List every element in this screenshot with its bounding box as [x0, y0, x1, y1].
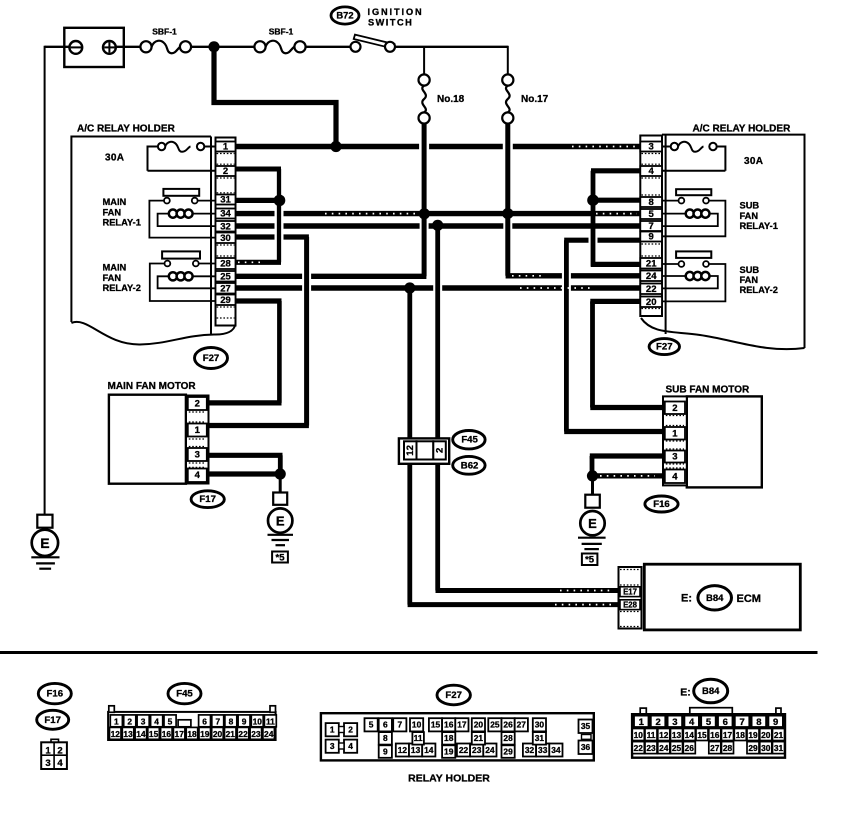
svg-text:15: 15 [431, 720, 441, 730]
svg-text:2: 2 [348, 725, 353, 735]
svg-text:A/C RELAY HOLDER: A/C RELAY HOLDER [77, 124, 176, 135]
svg-text:30: 30 [220, 233, 231, 244]
label E: B84 bottom [680, 679, 727, 703]
sub motor pin 1 [665, 427, 685, 440]
wire switch to fuse branches [395, 46, 508, 48]
svg-text:4: 4 [689, 717, 695, 728]
separator line [0, 651, 818, 654]
svg-text:26: 26 [503, 720, 513, 730]
sub motor pin 2 [665, 402, 685, 415]
svg-text:31: 31 [535, 733, 545, 743]
svg-text:RELAY-2: RELAY-2 [740, 285, 778, 295]
relay MAIN FAN RELAY-2 [103, 251, 216, 301]
svg-text:12: 12 [659, 730, 669, 740]
svg-text:33: 33 [538, 745, 548, 755]
wire pin32 to pin7 line [236, 223, 641, 228]
svg-text:8: 8 [229, 716, 234, 726]
wire right pin9 to sub fan motor pin1 [564, 240, 663, 431]
svg-text:10: 10 [412, 720, 422, 730]
ground E far left [31, 515, 59, 569]
svg-text:MAIN: MAIN [103, 197, 127, 207]
svg-text:1: 1 [672, 428, 678, 439]
ground E sub fan [578, 476, 606, 566]
label F45 oval bottom [168, 683, 201, 703]
svg-text:24: 24 [659, 743, 669, 753]
svg-text:16: 16 [710, 730, 720, 740]
left A/C relay holder [71, 124, 235, 345]
pin E17 [620, 587, 640, 597]
sub fan motor [663, 385, 762, 488]
svg-text:21: 21 [774, 730, 784, 740]
svg-text:9: 9 [383, 746, 388, 756]
svg-text:E: E [40, 535, 49, 551]
svg-text:17: 17 [723, 730, 733, 740]
svg-text:20: 20 [213, 729, 223, 739]
junction dot right pin8 [587, 194, 599, 206]
svg-text:26: 26 [685, 743, 695, 753]
motor pin 4 [188, 469, 207, 483]
wire left pin2 to pin28 vertical [277, 169, 281, 262]
svg-text:29: 29 [220, 295, 231, 306]
wire right pin24 from No.17 riser [506, 273, 641, 278]
svg-text:12: 12 [398, 745, 408, 755]
svg-text:RELAY-1: RELAY-1 [740, 221, 778, 231]
svg-text:E:: E: [680, 687, 691, 699]
svg-text:FAN: FAN [740, 211, 759, 221]
svg-text:15: 15 [697, 730, 707, 740]
fuse SBF-1 (second) [254, 27, 305, 54]
wire No.17 riser [505, 124, 510, 276]
pin 27 [216, 283, 236, 295]
svg-text:17: 17 [457, 720, 467, 730]
svg-text:6: 6 [202, 716, 207, 726]
svg-text:19: 19 [748, 730, 758, 740]
pin 9 [640, 232, 662, 243]
svg-text:B84: B84 [706, 593, 724, 604]
junction dot main fan ground [275, 468, 286, 479]
blank cell hatch marks main fan motor strip [189, 412, 206, 467]
svg-text:4: 4 [57, 758, 63, 769]
blank cell hatch marks sub fan motor strip [666, 416, 684, 469]
svg-text:1: 1 [639, 717, 645, 728]
svg-text:SUB: SUB [740, 265, 760, 275]
svg-text:3: 3 [649, 142, 654, 153]
wire thick feed from junction down right to bus [214, 52, 336, 147]
svg-text:17: 17 [175, 729, 185, 739]
pin 21 [640, 258, 662, 270]
svg-text:F17: F17 [199, 494, 216, 505]
svg-text:SUB: SUB [740, 201, 760, 211]
junction dot connector riser on pin27 line [404, 282, 415, 293]
svg-text:E: E [588, 516, 597, 531]
pin 34 [216, 209, 236, 220]
svg-text:22: 22 [238, 729, 248, 739]
junction dot No.17 on pin5 line [502, 208, 513, 219]
svg-text:19: 19 [444, 746, 454, 756]
svg-text:4: 4 [154, 716, 159, 726]
connector F27 face [321, 713, 594, 784]
svg-text:15: 15 [149, 729, 159, 739]
pin 31 [216, 195, 236, 206]
svg-text:3: 3 [195, 450, 200, 461]
svg-text:24: 24 [485, 745, 495, 755]
svg-text:F16: F16 [47, 689, 64, 700]
svg-text:21: 21 [646, 259, 657, 270]
svg-text:2: 2 [195, 399, 200, 410]
relay SUB FAN RELAY-1 [662, 189, 778, 236]
svg-text:4: 4 [672, 471, 678, 482]
svg-text:30A: 30A [105, 153, 124, 164]
svg-text:30: 30 [535, 720, 545, 730]
pin 24 [640, 271, 662, 283]
svg-text:32: 32 [525, 745, 535, 755]
label F16 oval [645, 496, 678, 512]
connector F16/F17 face [41, 739, 67, 769]
svg-text:16: 16 [444, 720, 454, 730]
wire right pin8 [593, 198, 640, 203]
svg-text:20: 20 [474, 720, 484, 730]
svg-text:ECM: ECM [737, 593, 761, 605]
wire main fan motor pin4 to ground dot [209, 471, 281, 476]
svg-text:23: 23 [646, 743, 656, 753]
relay SUB FAN RELAY-2 [662, 251, 778, 301]
svg-text:10: 10 [253, 716, 263, 726]
svg-text:F27: F27 [445, 690, 462, 701]
svg-text:2: 2 [127, 716, 132, 726]
svg-text:2: 2 [435, 448, 446, 453]
pin 28 [216, 258, 236, 270]
svg-text:24: 24 [646, 271, 657, 282]
svg-text:No.17: No.17 [521, 94, 549, 105]
svg-text:1: 1 [114, 716, 119, 726]
pin 3 [640, 142, 662, 153]
svg-text:3: 3 [141, 716, 146, 726]
svg-text:9: 9 [773, 717, 778, 728]
svg-text:FAN: FAN [740, 275, 759, 285]
label F17 oval [191, 491, 224, 508]
svg-text:7: 7 [215, 716, 220, 726]
svg-text:SBF-1: SBF-1 [152, 27, 177, 37]
label F17 oval bottom [37, 710, 69, 729]
label B62 oval [453, 456, 485, 474]
svg-text:13: 13 [123, 729, 133, 739]
label F27 oval bottom [437, 685, 470, 705]
svg-text:11: 11 [266, 716, 275, 726]
svg-text:29: 29 [503, 746, 513, 756]
B84 face pins row 22-31 [632, 742, 784, 754]
pin 32 [216, 221, 236, 233]
svg-text:10: 10 [634, 730, 644, 740]
wire No.18 riser [422, 124, 427, 214]
svg-text:36: 36 [581, 742, 591, 752]
svg-text:9: 9 [649, 232, 654, 243]
wire branch to fuse No.18 [423, 47, 425, 75]
wire ground drop vertical [44, 46, 46, 514]
wire bus pin1 to pin3 [236, 144, 641, 149]
pin 30 [216, 233, 236, 245]
fuse 30A left [105, 142, 216, 171]
junction dot connector riser on pin32 line [432, 220, 443, 231]
wire pin27 to pin22 line [236, 285, 641, 290]
connector B84 face [632, 708, 785, 758]
svg-text:B72: B72 [336, 10, 353, 21]
svg-text:18: 18 [444, 733, 454, 743]
svg-text:E:: E: [681, 593, 692, 605]
svg-text:11: 11 [414, 733, 423, 743]
svg-text:SWITCH: SWITCH [368, 17, 413, 27]
svg-text:1: 1 [330, 725, 335, 735]
svg-text:B62: B62 [461, 460, 479, 471]
ECM box [644, 564, 800, 630]
blank cell hatch marks left strip [217, 154, 235, 319]
F45 face pins bottom row [110, 727, 275, 739]
junction dot sub fan ground [587, 470, 598, 481]
junction dot No.18 on pin34 line [419, 208, 430, 219]
svg-text:31: 31 [220, 195, 231, 206]
F45 face pins top row [110, 715, 276, 727]
svg-text:SBF-1: SBF-1 [269, 27, 294, 37]
junction dot on bus pin1 line [330, 141, 341, 152]
pin 2 [216, 166, 236, 177]
svg-text:5: 5 [649, 209, 655, 220]
svg-text:E: E [276, 513, 285, 528]
wire connector riser cell2 lower to E17 [436, 461, 619, 591]
svg-text:2: 2 [655, 717, 660, 728]
fuse 30A right [662, 142, 763, 171]
svg-text:12: 12 [405, 445, 416, 456]
svg-text:24: 24 [264, 729, 274, 739]
svg-text:35: 35 [581, 721, 591, 731]
svg-text:11: 11 [647, 730, 656, 740]
svg-text:20: 20 [646, 297, 657, 308]
svg-text:19: 19 [200, 729, 210, 739]
wire pin34 to pin5 line [236, 211, 641, 216]
svg-text:32: 32 [220, 222, 231, 233]
svg-text:5: 5 [168, 716, 173, 726]
svg-text:No.18: No.18 [437, 94, 465, 105]
svg-text:21: 21 [474, 733, 484, 743]
junction dot pin31 [274, 195, 286, 207]
svg-text:8: 8 [756, 717, 761, 728]
svg-text:29: 29 [748, 743, 758, 753]
svg-text:12: 12 [111, 729, 121, 739]
svg-text:RELAY-2: RELAY-2 [103, 283, 141, 293]
svg-text:6: 6 [383, 720, 388, 730]
svg-text:23: 23 [251, 729, 261, 739]
B84 face pins row 1-9 [634, 715, 783, 728]
svg-text:1: 1 [45, 745, 51, 756]
label F16 oval bottom [38, 683, 71, 703]
svg-text:16: 16 [162, 729, 172, 739]
svg-text:13: 13 [672, 730, 682, 740]
svg-text:4: 4 [348, 741, 353, 751]
blank cell hatch marks ECM strip [620, 570, 640, 627]
wire battery negative to ground drop [45, 46, 70, 48]
svg-text:25: 25 [220, 272, 231, 283]
svg-text:27: 27 [220, 284, 231, 295]
svg-text:E28: E28 [623, 601, 638, 610]
svg-text:F45: F45 [176, 689, 193, 700]
svg-text:*5: *5 [276, 552, 286, 563]
wire left pin2 [236, 167, 282, 172]
motor pin 2 [188, 397, 207, 410]
svg-text:18: 18 [187, 729, 197, 739]
svg-text:5: 5 [706, 717, 712, 728]
wire fuse to ignition switch [306, 46, 351, 48]
main fan motor [108, 381, 209, 484]
svg-text:22: 22 [459, 745, 469, 755]
svg-text:4: 4 [195, 470, 201, 481]
svg-text:FAN: FAN [103, 273, 122, 283]
wire branch to fuse No.17 [507, 46, 509, 75]
blank cell hatch marks right strip [641, 154, 661, 309]
F27 face pin cells [326, 718, 593, 758]
svg-text:25: 25 [490, 720, 500, 730]
wire main fan motor pin3 to ground dot [209, 455, 283, 474]
svg-text:9: 9 [242, 716, 247, 726]
svg-text:F16: F16 [653, 499, 670, 510]
svg-text:6: 6 [723, 717, 728, 728]
wire left pin30 to main fan motor pin1 [209, 237, 309, 426]
svg-text:28: 28 [503, 733, 513, 743]
svg-text:F27: F27 [203, 353, 220, 364]
wire left pin29 to main fan motor pin2 [209, 301, 282, 403]
svg-text:23: 23 [472, 745, 482, 755]
fuse No.17 [502, 74, 548, 123]
svg-text:14: 14 [424, 745, 434, 755]
svg-text:30: 30 [761, 743, 771, 753]
connector F45 face [108, 706, 276, 740]
label F27 oval left [195, 348, 228, 369]
svg-text:7: 7 [397, 720, 402, 730]
battery [64, 28, 124, 67]
ground E main fan [268, 474, 294, 563]
svg-text:F45: F45 [461, 435, 478, 446]
left pin strip [216, 138, 236, 326]
svg-text:3: 3 [672, 452, 677, 463]
connector F45/B62 [399, 438, 449, 463]
pin 1 [216, 142, 236, 153]
wire fuse to junction to fuse [191, 46, 254, 48]
wire connector riser cell12 lower to E28 [408, 461, 619, 605]
svg-text:MAIN: MAIN [103, 263, 127, 273]
wire left pin31 [236, 198, 280, 203]
svg-text:7: 7 [739, 717, 744, 728]
svg-text:34: 34 [220, 209, 231, 220]
wire battery plus to fuse SBF-1 [116, 46, 141, 48]
motor pin 3 [188, 448, 207, 461]
pin 20 [640, 297, 662, 309]
svg-text:2: 2 [57, 745, 62, 756]
pin 25 [216, 271, 236, 283]
wire connector riser cell2 upper [435, 225, 440, 441]
relay MAIN FAN RELAY-1 [103, 189, 216, 238]
svg-text:E17: E17 [623, 588, 637, 597]
wire sub fan motor pin3 to ground dot [590, 456, 664, 476]
junction dot top feed [208, 41, 219, 52]
svg-text:8: 8 [649, 197, 654, 208]
svg-text:30A: 30A [744, 156, 763, 167]
svg-text:20: 20 [761, 730, 771, 740]
wire sub fan motor pin4 to ground dot [593, 473, 664, 478]
svg-text:14: 14 [136, 729, 146, 739]
svg-text:2: 2 [672, 403, 677, 414]
svg-text:28: 28 [220, 259, 231, 270]
svg-text:3: 3 [330, 741, 335, 751]
svg-text:31: 31 [774, 743, 784, 753]
pin 4 [640, 166, 662, 177]
svg-text:MAIN FAN MOTOR: MAIN FAN MOTOR [108, 381, 197, 392]
B84 face pins row 10-21 [632, 729, 784, 741]
pin 8 [640, 197, 662, 208]
svg-text:RELAY HOLDER: RELAY HOLDER [408, 773, 490, 785]
svg-text:A/C RELAY HOLDER: A/C RELAY HOLDER [693, 124, 792, 135]
ignition switch B72 [351, 35, 396, 52]
wire left pin25 to No.18 riser [236, 214, 427, 276]
svg-text:SUB FAN MOTOR: SUB FAN MOTOR [666, 385, 750, 396]
svg-text:2: 2 [223, 166, 228, 177]
wire right pin20 to sub fan motor pin2 [590, 301, 663, 407]
svg-text:22: 22 [634, 743, 644, 753]
label B72 ignition switch [331, 7, 424, 28]
svg-text:RELAY-1: RELAY-1 [103, 218, 141, 228]
svg-text:IGNITION: IGNITION [368, 7, 424, 17]
scan texture nicks on wires [238, 147, 655, 605]
svg-text:13: 13 [411, 745, 421, 755]
svg-text:F27: F27 [656, 342, 673, 353]
motor pin 1 [188, 424, 207, 437]
ECM connector strip [619, 567, 642, 629]
pin 22 [640, 284, 662, 296]
svg-text:21: 21 [226, 729, 236, 739]
svg-text:34: 34 [551, 745, 561, 755]
sub motor pin 4 [665, 470, 685, 484]
svg-text:1: 1 [195, 425, 201, 436]
svg-text:7: 7 [649, 221, 654, 232]
fuse No.18 [419, 74, 465, 123]
pin 7 [640, 221, 662, 232]
svg-text:F17: F17 [44, 715, 61, 726]
svg-text:8: 8 [383, 733, 388, 743]
svg-text:3: 3 [672, 717, 677, 728]
wire left pin28 [236, 260, 282, 265]
svg-text:3: 3 [45, 758, 50, 769]
svg-text:*5: *5 [585, 555, 595, 566]
pin 29 [216, 295, 236, 307]
svg-text:22: 22 [646, 284, 657, 295]
svg-text:27: 27 [517, 720, 527, 730]
right pin strip [640, 136, 662, 317]
svg-text:25: 25 [672, 743, 682, 753]
right A/C relay holder [641, 124, 805, 350]
svg-text:1: 1 [223, 142, 229, 153]
svg-text:FAN: FAN [103, 207, 122, 217]
svg-text:5: 5 [369, 720, 374, 730]
pin 5 [640, 209, 662, 220]
svg-text:27: 27 [710, 743, 720, 753]
wire connector riser cell12 upper [407, 288, 412, 441]
svg-text:4: 4 [649, 166, 655, 177]
wire right pin4 to pin21 [591, 171, 640, 267]
svg-text:B84: B84 [702, 686, 720, 697]
fuse SBF-1 (first) [140, 27, 191, 54]
label F27 oval right [649, 339, 679, 355]
svg-text:18: 18 [736, 730, 746, 740]
label F45 oval [453, 431, 485, 449]
svg-text:28: 28 [723, 743, 733, 753]
sub motor pin 3 [665, 451, 685, 463]
svg-text:14: 14 [685, 730, 695, 740]
